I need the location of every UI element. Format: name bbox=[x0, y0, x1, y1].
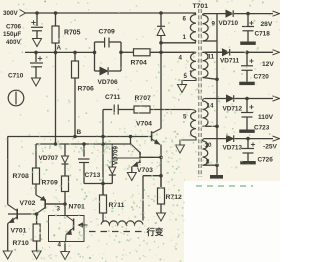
svg-text:-25V: -25V bbox=[263, 144, 278, 151]
svg-text:VD706: VD706 bbox=[98, 79, 118, 86]
svg-text:VD711: VD711 bbox=[220, 58, 240, 65]
svg-text:C726: C726 bbox=[258, 157, 274, 164]
svg-text:C718: C718 bbox=[255, 31, 271, 38]
svg-text:C720: C720 bbox=[254, 74, 270, 81]
svg-text:5: 5 bbox=[184, 73, 188, 80]
svg-text:T701: T701 bbox=[193, 3, 209, 10]
svg-text:3: 3 bbox=[57, 206, 61, 213]
svg-text:V703: V703 bbox=[137, 167, 153, 174]
svg-text:R708: R708 bbox=[13, 173, 29, 180]
svg-text:R710: R710 bbox=[13, 240, 29, 247]
svg-text:V704: V704 bbox=[136, 121, 152, 128]
svg-text:V701: V701 bbox=[11, 228, 27, 235]
svg-text:1: 1 bbox=[183, 34, 187, 41]
svg-text:B: B bbox=[77, 129, 82, 136]
svg-text:300V: 300V bbox=[3, 10, 19, 17]
svg-text:VD707: VD707 bbox=[39, 155, 59, 162]
svg-text:12V: 12V bbox=[262, 61, 274, 68]
svg-text:C711: C711 bbox=[105, 94, 121, 101]
svg-text:R706: R706 bbox=[78, 86, 94, 93]
svg-text:VD713: VD713 bbox=[223, 145, 243, 152]
svg-text:110V: 110V bbox=[258, 114, 274, 121]
svg-text:VD712: VD712 bbox=[223, 106, 243, 113]
svg-text:VD709: VD709 bbox=[113, 146, 120, 165]
svg-text:C706: C706 bbox=[6, 23, 22, 30]
svg-text:9: 9 bbox=[212, 21, 216, 28]
svg-text:4: 4 bbox=[58, 242, 62, 249]
svg-text:C713: C713 bbox=[85, 172, 101, 179]
svg-text:R705: R705 bbox=[64, 30, 81, 37]
svg-text:28V: 28V bbox=[261, 21, 273, 28]
svg-text:4: 4 bbox=[179, 55, 183, 62]
svg-text:R707: R707 bbox=[135, 95, 151, 102]
svg-text:6: 6 bbox=[183, 16, 187, 23]
svg-text:150μF: 150μF bbox=[3, 31, 21, 38]
svg-text:R704: R704 bbox=[131, 60, 147, 67]
svg-text:N701: N701 bbox=[69, 204, 85, 211]
svg-text:C709: C709 bbox=[99, 29, 115, 36]
svg-text:10: 10 bbox=[205, 142, 212, 149]
svg-text:11: 11 bbox=[208, 54, 215, 61]
svg-text:C710: C710 bbox=[8, 73, 24, 80]
